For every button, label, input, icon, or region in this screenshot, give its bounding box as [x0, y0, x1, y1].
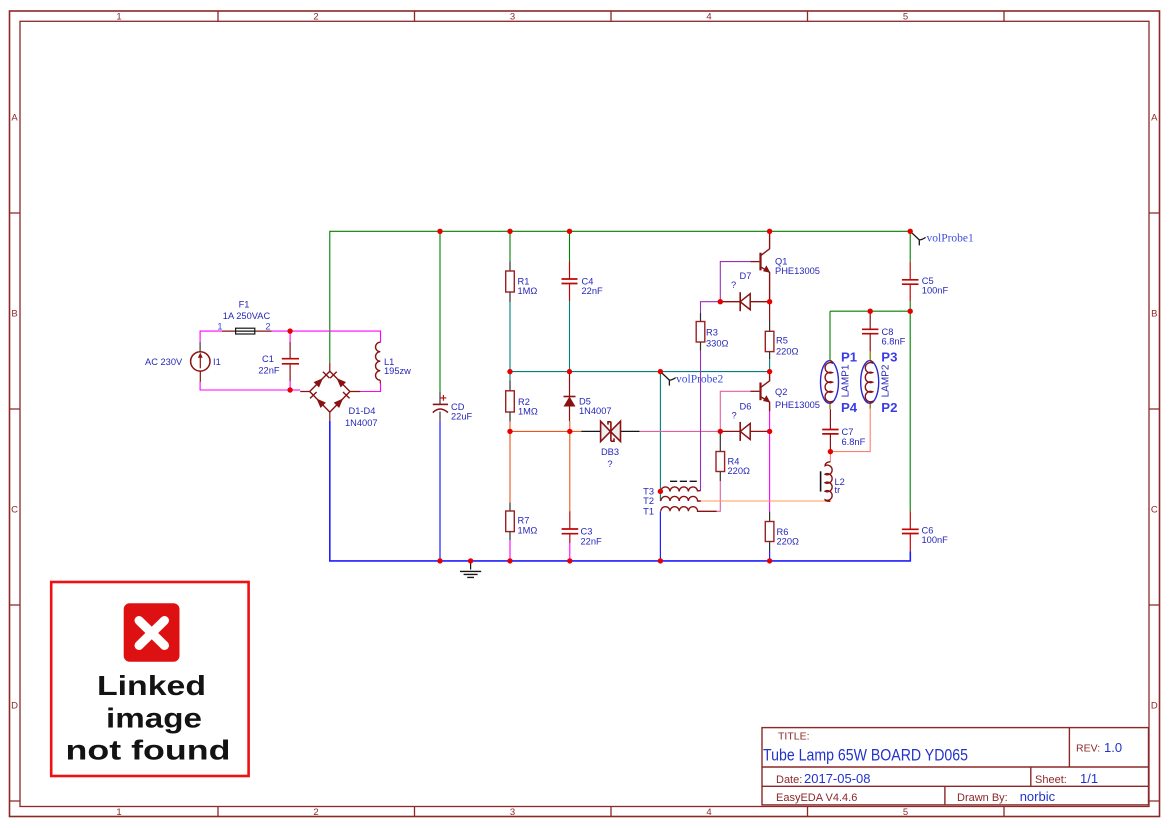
svg-text:C: C	[1151, 505, 1158, 516]
svg-text:Tube Lamp 65W BOARD YD065: Tube Lamp 65W BOARD YD065	[763, 746, 968, 765]
probe symbol volProbe2	[660, 372, 675, 386]
svg-text:R7: R7	[518, 516, 530, 526]
transistor Q2	[750, 372, 770, 412]
svg-text:1MΩ: 1MΩ	[518, 525, 538, 535]
resistor R1	[506, 261, 515, 302]
svg-text:1: 1	[116, 12, 121, 23]
svg-text:C4: C4	[582, 277, 594, 287]
svg-text:22nF: 22nF	[258, 366, 280, 376]
capacitor C7	[822, 409, 838, 451]
frame ruler ticks bottom	[218, 807, 1004, 817]
svg-text:F1: F1	[239, 300, 250, 310]
svg-text:D1-D4: D1-D4	[349, 406, 376, 416]
svg-text:R3: R3	[706, 328, 718, 338]
wire D5 bottom stub (orange)	[569, 421, 571, 431]
wire C1 bottom stub (magenta)	[289, 381, 291, 390]
wire fuse to C1 junction (magenta)	[272, 330, 291, 332]
svg-text:image: image	[106, 703, 202, 734]
svg-text:22nF: 22nF	[582, 286, 604, 296]
resistor R6	[765, 512, 774, 551]
wire Q1 base (purple)	[720, 262, 750, 302]
svg-text:1N4007: 1N4007	[345, 418, 378, 428]
junction top bus / volProbe1 / C5	[908, 229, 913, 234]
svg-text:P4: P4	[841, 400, 858, 415]
svg-text:220Ω: 220Ω	[777, 537, 800, 547]
junction ground bus / C3	[567, 558, 572, 563]
svg-text:?: ?	[731, 280, 736, 290]
wire ground bus (blue)	[330, 421, 911, 561]
svg-text:P3: P3	[881, 349, 897, 364]
junction volProbe2 net / D5	[567, 369, 572, 374]
wire C3 bottom stub (magenta)	[569, 543, 571, 561]
junction D6 / Q2 emitter / R6	[767, 429, 772, 434]
svg-text:195zw: 195zw	[384, 366, 411, 376]
svg-text:C6: C6	[922, 526, 934, 536]
svg-text:T2: T2	[643, 496, 654, 506]
lamp P3/P2 LAMP2	[861, 351, 879, 409]
frame ruler ticks right	[1149, 213, 1160, 801]
junction top bus / CD	[437, 229, 442, 234]
svg-text:4: 4	[706, 12, 711, 23]
svg-text:T1: T1	[643, 506, 654, 516]
wire D7 junction to R3 (purple)	[701, 302, 721, 313]
svg-text:R6: R6	[777, 527, 789, 537]
svg-text:T3: T3	[643, 487, 654, 497]
inductor L2	[821, 462, 833, 502]
svg-text:LAMP1: LAMP1	[840, 364, 851, 397]
svg-text:B: B	[1151, 309, 1157, 320]
svg-text:100nF: 100nF	[922, 286, 949, 296]
svg-text:norbic: norbic	[1020, 789, 1056, 804]
junction top bus / R1	[507, 229, 512, 234]
svg-text:not found: not found	[66, 735, 231, 766]
svg-text:?: ?	[732, 411, 737, 421]
wire C7 junction to lamp2 bottom (salmon)	[830, 409, 870, 452]
svg-text:CD: CD	[451, 402, 465, 412]
svg-text:D5: D5	[579, 396, 591, 406]
svg-text:6.8nF: 6.8nF	[842, 437, 866, 447]
capacitor C8	[862, 311, 878, 351]
svg-text:1MΩ: 1MΩ	[518, 407, 538, 417]
svg-text:REV:: REV:	[1076, 743, 1100, 755]
svg-text:100nF: 100nF	[922, 535, 949, 545]
junction volProbe2 net / R5 / Q2	[767, 369, 772, 374]
svg-text:?: ?	[607, 459, 612, 469]
svg-text:Q2: Q2	[775, 387, 787, 397]
svg-text:LAMP2: LAMP2	[881, 364, 892, 397]
capacitor C4	[562, 262, 578, 302]
wire C7 bottom to L2 top (salmon)	[829, 452, 831, 462]
svg-text:R1: R1	[518, 277, 530, 287]
wire R3 bottom to T3 right (purple)	[700, 351, 702, 491]
svg-text:3: 3	[510, 12, 515, 23]
wire R1 top (green)	[509, 231, 511, 261]
junction top bus / C4	[567, 229, 572, 234]
wire DB3 to D6 junction (pink)	[640, 430, 721, 432]
wire R5 bottom stub (teal)	[769, 359, 771, 372]
inductor L1	[376, 342, 381, 383]
wire AC loop top left (magenta)	[200, 331, 222, 342]
junction ground bus / CD	[437, 558, 442, 563]
wire lamp branch horizontal (green)	[830, 311, 910, 511]
bridge rectifier D1-D4	[300, 363, 360, 421]
wire C1 junction to L1 (magenta)	[290, 331, 380, 342]
svg-text:1MΩ: 1MΩ	[518, 286, 538, 296]
junction C7 / L2 / lamp2 wire	[828, 449, 833, 454]
svg-text:D7: D7	[740, 271, 752, 281]
resistor R4	[716, 431, 725, 481]
svg-text:2: 2	[265, 321, 270, 331]
svg-text:C8: C8	[882, 327, 894, 337]
svg-text:220Ω: 220Ω	[728, 466, 751, 476]
svg-text:C3: C3	[581, 527, 593, 537]
svg-text:volProbe2: volProbe2	[676, 373, 724, 385]
svg-text:5: 5	[903, 12, 908, 23]
capacitor C5	[902, 262, 919, 301]
diode D7	[722, 292, 770, 311]
wire orange down to C3	[569, 431, 571, 511]
wire R4 bottom to T1 (pink)	[717, 481, 721, 511]
lamp P1/P4 LAMP1	[821, 361, 839, 410]
junction D6 / R4 / Q2 base	[718, 429, 723, 434]
svg-text:C5: C5	[922, 276, 934, 286]
svg-text:Sheet:: Sheet:	[1035, 774, 1067, 786]
svg-text:C1: C1	[262, 354, 274, 364]
svg-text:B: B	[11, 309, 17, 320]
junction AC top / C1 / F1	[287, 328, 292, 333]
svg-text:C: C	[11, 505, 18, 516]
wire AC source bottom (magenta)	[200, 382, 290, 390]
svg-text:4: 4	[706, 807, 711, 818]
frame ruler ticks top	[218, 11, 1004, 21]
svg-text:Q1: Q1	[775, 256, 787, 266]
junction lamp branch / C8	[868, 309, 873, 314]
transformer core dashed line	[670, 480, 697, 482]
wire R6 bottom stub (blue)	[769, 551, 771, 561]
wire C1 top stub (magenta)	[289, 331, 291, 342]
wire C5 top (green)	[909, 231, 911, 261]
frame ruler ticks left	[10, 213, 21, 801]
svg-text:A: A	[11, 113, 18, 124]
wire R2 bottom to orange net (orange)	[510, 421, 570, 431]
wire R1 bottom (teal)	[509, 302, 511, 372]
junction Q1 base / D7 / R3	[718, 299, 723, 304]
wire T2 right to L2 bottom (light orange)	[701, 500, 830, 501]
wire orange to DB3 left	[570, 430, 582, 432]
junction ground bus / R6	[767, 558, 772, 563]
title block outline	[762, 728, 1149, 805]
svg-text:22nF: 22nF	[581, 536, 603, 546]
wire C4 top (green)	[569, 231, 571, 261]
svg-text:I1: I1	[213, 357, 221, 367]
AC source I1	[191, 342, 210, 382]
transistor Q1	[750, 231, 770, 301]
wire Q2 emitter to R6 (magenta)	[769, 411, 771, 511]
wire R7 bottom stub (magenta)	[509, 540, 511, 561]
diode D5	[564, 372, 576, 421]
svg-text:3: 3	[510, 807, 515, 818]
fuse F1	[222, 328, 272, 334]
title block cell dividers	[945, 728, 1070, 805]
diac DB3	[601, 421, 621, 441]
svg-text:330Ω: 330Ω	[706, 338, 729, 348]
ground symbol	[460, 561, 481, 578]
wire T1 left to bus (blue)	[659, 511, 661, 561]
transformer winding T2	[661, 496, 701, 501]
junction volProbe2 net / R1 / R2	[507, 369, 512, 374]
svg-text:R4: R4	[728, 456, 740, 466]
wire orange net down to R7	[509, 431, 511, 502]
svg-text:volProbe1: volProbe1	[927, 232, 975, 244]
wire CD top (green)	[439, 231, 441, 391]
svg-text:AC 230V: AC 230V	[145, 357, 183, 367]
svg-text:D: D	[11, 701, 18, 712]
svg-text:D6: D6	[740, 402, 752, 412]
svg-text:1: 1	[116, 807, 121, 818]
wire top DC bus (green)	[330, 231, 910, 362]
svg-text:Drawn By:: Drawn By:	[957, 792, 1008, 804]
svg-text:D: D	[1151, 701, 1158, 712]
wire R2 top stub (teal)	[509, 372, 511, 381]
svg-text:R2: R2	[518, 397, 530, 407]
wire C4 bottom (teal)	[569, 301, 571, 372]
wire CD bottom (blue)	[439, 421, 441, 561]
resistor R7	[506, 503, 515, 540]
transformer winding T3	[661, 487, 701, 492]
capacitor C6	[902, 511, 919, 551]
svg-text:P2: P2	[881, 400, 897, 415]
svg-text:A: A	[1151, 113, 1158, 124]
capacitor C1	[282, 342, 299, 381]
svg-text:2017-05-08: 2017-05-08	[804, 771, 871, 786]
svg-text:1N4007: 1N4007	[579, 406, 612, 416]
wire Q2 base (pink)	[720, 391, 750, 431]
svg-text:PHE13005: PHE13005	[775, 266, 820, 276]
svg-text:1/1: 1/1	[1080, 771, 1098, 786]
junction lamp branch / C5-C6 column	[908, 309, 913, 314]
wire DB3 right pin (black)	[621, 430, 640, 432]
svg-text:220Ω: 220Ω	[776, 347, 799, 357]
junction top bus / Q1 collector	[767, 229, 772, 234]
junction volProbe2 net / probe / T3	[658, 369, 663, 374]
junction AC bottom / C1	[287, 387, 292, 392]
svg-text:DB3: DB3	[601, 447, 619, 457]
junction T3 left / teal net	[658, 489, 663, 494]
svg-text:22uF: 22uF	[451, 412, 473, 422]
svg-text:TITLE:: TITLE:	[778, 731, 810, 743]
junction ground bus / ground symbol	[468, 558, 473, 563]
resistor R3	[696, 313, 705, 351]
svg-text:1: 1	[217, 321, 222, 331]
electrolytic capacitor CD	[433, 392, 448, 421]
svg-text:6.8nF: 6.8nF	[882, 337, 906, 347]
junction Q1 emitter / D7 / R5	[767, 299, 772, 304]
wire C5 bottom to lamp branch (green)	[909, 301, 911, 311]
svg-text:2: 2	[313, 12, 318, 23]
svg-text:P1: P1	[841, 349, 857, 364]
capacitor C3	[562, 511, 579, 543]
wire volProbe2 net horizontal (teal)	[510, 371, 770, 373]
svg-text:PHE13005: PHE13005	[775, 400, 820, 410]
svg-text:Date:: Date:	[776, 774, 802, 786]
linked image broken icon	[124, 603, 180, 662]
svg-text:EasyEDA V4.4.6: EasyEDA V4.4.6	[776, 792, 857, 804]
resistor R5	[765, 302, 774, 359]
wire L1 bottom to bridge right (magenta)	[360, 384, 380, 392]
svg-text:tr: tr	[835, 485, 841, 495]
wire lamp1 top (green)	[829, 311, 831, 360]
wire teal vertical to T3/T2	[659, 372, 661, 502]
linked image placeholder box	[51, 582, 248, 776]
wire C1 bottom to bridge left (magenta)	[290, 389, 300, 391]
title block row dividers	[762, 767, 1149, 786]
junction ground bus / R7	[507, 558, 512, 563]
diode D6	[722, 422, 770, 441]
junction orange net / D5 / C3	[567, 429, 572, 434]
junction orange net / R2 / R7	[507, 429, 512, 434]
resistor R2	[506, 381, 515, 422]
svg-text:1.0: 1.0	[1104, 740, 1122, 755]
wire DB3 left pin (black)	[581, 430, 600, 432]
svg-text:C7: C7	[842, 427, 854, 437]
junction ground bus / T1	[658, 558, 663, 563]
svg-text:1A 250VAC: 1A 250VAC	[223, 311, 271, 321]
svg-text:5: 5	[903, 807, 908, 818]
svg-text:2: 2	[313, 807, 318, 818]
transformer winding T1	[661, 507, 717, 512]
svg-text:Linked: Linked	[97, 670, 206, 701]
svg-text:R5: R5	[776, 336, 788, 346]
probe symbol volProbe1	[910, 231, 925, 245]
